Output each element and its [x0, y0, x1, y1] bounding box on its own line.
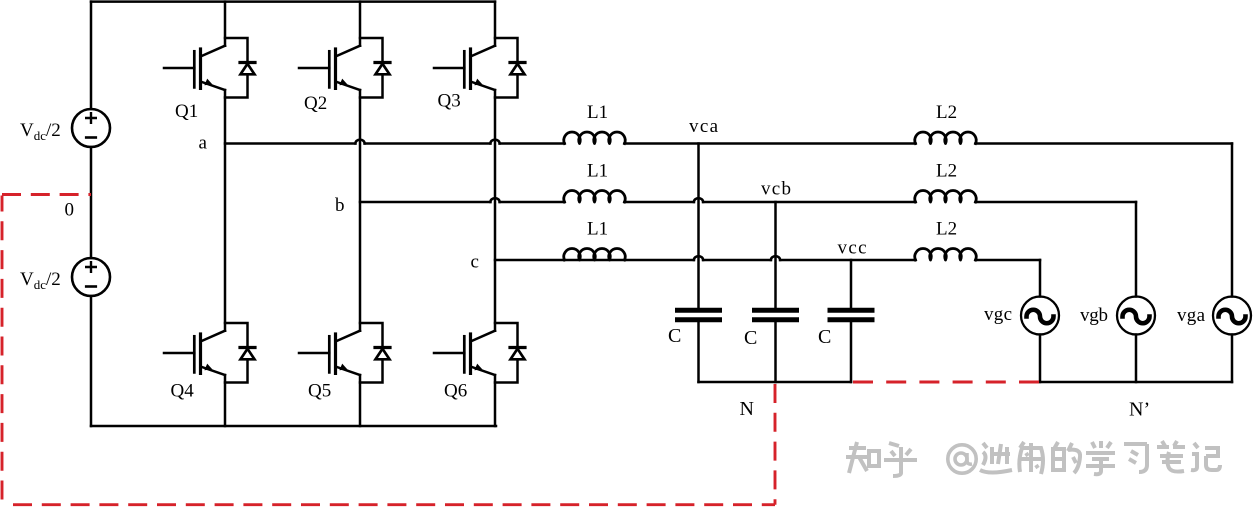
svg-text:Q6: Q6	[444, 381, 467, 402]
svg-text:vcb: vcb	[761, 179, 791, 200]
char hu	[884, 443, 917, 476]
svg-text:b: b	[335, 195, 345, 216]
crossover hop b-line over leg3	[490, 198, 499, 202]
char shi	[980, 443, 1012, 473]
wire left DC bus upper segment	[90, 2, 93, 109]
svg-text:vcc: vcc	[838, 238, 867, 259]
char ji	[1191, 443, 1220, 470]
wire neutral N'	[1040, 381, 1232, 384]
red dashed left edge down	[1, 196, 4, 506]
red dashed N to N' link	[853, 381, 1039, 384]
dc source V2 Vdc/2	[72, 258, 110, 296]
svg-text:C: C	[744, 327, 757, 349]
transistor Q5 with diode	[299, 323, 390, 383]
wire vcc capacitor branch	[850, 260, 853, 382]
transistor Q6 with diode	[434, 323, 525, 383]
svg-text:L1: L1	[587, 161, 608, 182]
svg-text:Q2: Q2	[304, 93, 327, 114]
transistor Q3 with diode	[434, 38, 525, 98]
inductor L2 phase c	[915, 248, 976, 260]
svg-text:N: N	[740, 398, 754, 420]
svg-text:Q4: Q4	[171, 381, 195, 402]
char de	[1053, 442, 1080, 473]
svg-text:a: a	[199, 133, 208, 154]
wire phase a line	[225, 142, 1232, 145]
char xi	[1124, 444, 1147, 472]
inductor L1 phase c	[564, 248, 625, 260]
svg-text:vca: vca	[689, 116, 719, 137]
wire phase b line	[360, 201, 1136, 204]
wire phase c line	[495, 259, 1040, 262]
svg-text:vga: vga	[1177, 305, 1206, 326]
wire vga drop	[1231, 144, 1234, 383]
wire phase leg 3	[494, 2, 497, 426]
capacitor C phase b	[755, 310, 797, 320]
svg-text:Vdc/2: Vdc/2	[20, 269, 61, 292]
red dashed link 0 to left edge	[2, 193, 91, 196]
wire top DC rail	[91, 0, 495, 3]
wire between sources	[90, 147, 93, 258]
svg-text:L1: L1	[587, 219, 608, 240]
svg-text:Q5: Q5	[308, 381, 331, 402]
wire phase leg 1	[224, 2, 227, 426]
svg-text:c: c	[471, 252, 479, 273]
char zhi	[846, 442, 879, 473]
inductor L2 phase b	[915, 190, 976, 202]
svg-text:0: 0	[65, 200, 75, 221]
watermark zhihu text	[846, 441, 1220, 476]
svg-text:L2: L2	[936, 102, 957, 123]
ac source vga	[1213, 297, 1251, 335]
red dashed bottom run	[13, 503, 775, 506]
wire vgc drop	[1039, 260, 1042, 382]
wire neutral N	[699, 381, 852, 384]
char bi	[1157, 441, 1185, 472]
crossover hop c-line over vcb branch	[771, 256, 780, 260]
char zhou	[1019, 442, 1043, 474]
inductor L2 phase a	[915, 132, 976, 144]
crossover hop c-line over vca branch	[694, 256, 703, 260]
dc source V1 Vdc/2	[72, 109, 110, 147]
wire left DC bus lower segment	[90, 296, 93, 426]
svg-text:Q1: Q1	[175, 101, 198, 122]
char xue	[1086, 441, 1115, 474]
svg-text:L2: L2	[936, 219, 957, 240]
svg-text:C: C	[818, 326, 831, 348]
svg-text:Vdc/2: Vdc/2	[20, 120, 61, 143]
svg-text:vgc: vgc	[984, 304, 1012, 325]
wire vgb drop	[1135, 202, 1138, 382]
ac source vgb	[1117, 297, 1155, 335]
svg-text:L2: L2	[936, 161, 957, 182]
ac source vgc	[1021, 297, 1059, 335]
capacitor C phase c	[830, 310, 872, 320]
wire bottom DC rail	[91, 425, 496, 428]
inductor L1 phase b	[564, 190, 625, 202]
svg-text:Q3: Q3	[438, 91, 461, 112]
transistor Q2 with diode	[299, 38, 390, 98]
wire phase leg 2	[359, 2, 362, 426]
inductor L1 phase a	[564, 132, 625, 144]
svg-text:vgb: vgb	[1080, 305, 1108, 326]
transistor Q4 with diode	[164, 323, 255, 383]
red dashed riser to N	[774, 384, 777, 505]
crossover hop a-line over leg3	[490, 140, 499, 144]
wire vcb capacitor branch	[774, 202, 777, 382]
svg-text:L1: L1	[587, 102, 608, 123]
svg-text:N’: N’	[1129, 399, 1150, 421]
crossover hop b-line over vca branch	[694, 198, 703, 202]
wire vca capacitor branch	[697, 144, 700, 383]
transistor Q1 with diode	[164, 38, 255, 98]
char at-sign	[948, 445, 976, 473]
svg-text:C: C	[668, 325, 681, 347]
capacitor C phase a	[678, 310, 720, 320]
crossover hop a-line over leg2	[355, 140, 364, 144]
